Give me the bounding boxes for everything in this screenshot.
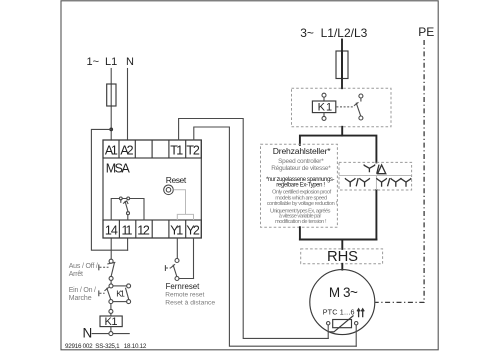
wire to coil connection circle (110, 304, 112, 310)
svg-text:3~: 3~ (300, 26, 314, 40)
symbol Y/YY (377, 178, 412, 187)
wire RHS to motor (341, 264, 343, 270)
relay coil K1 (100, 316, 122, 327)
svg-text:M 3~: M 3~ (329, 285, 358, 300)
border frame (61, 1, 438, 350)
svg-text:PTC 1...6: PTC 1...6 (323, 307, 355, 316)
wire branch from L1 junction to contact bus (91, 129, 127, 250)
svg-text:regelbare Ex-Typen !: regelbare Ex-Typen ! (276, 182, 325, 188)
wire N down to A2 (127, 69, 129, 141)
fuse F1 (107, 84, 116, 106)
bus to RHS (300, 239, 377, 241)
svg-text:1~: 1~ (87, 56, 100, 68)
svg-text:Y1: Y1 (170, 223, 183, 237)
thin link reset to Y1 Y2 (173, 190, 185, 215)
svg-text:MSA: MSA (106, 161, 131, 175)
actuator dashed link (336, 106, 354, 108)
node N rail (92, 333, 129, 335)
svg-text:L1/L2/L3: L1/L2/L3 (321, 26, 368, 40)
MSA relay outline U1 (103, 140, 201, 238)
wire below winding box (375, 190, 377, 240)
coil terminal bottom (323, 113, 325, 117)
svg-text:12: 12 (137, 223, 150, 237)
svg-text:T1: T1 (170, 143, 183, 157)
symbol Y/D (364, 165, 386, 174)
reset button S1 (164, 185, 174, 195)
svg-text:K1: K1 (318, 102, 333, 114)
wire Aus to Ein junction (110, 280, 112, 284)
wire L1 down to fuse (110, 69, 112, 141)
svg-text:PE: PE (418, 25, 434, 39)
wire stub right PTC terminal (355, 325, 357, 346)
svg-text:Remote reset: Remote reset (165, 292, 204, 299)
Ein pushbutton NO with K1 contact parallel (99, 284, 131, 304)
svg-text:Ein / On /: Ein / On / (69, 287, 96, 294)
Fernreset pushbutton (165, 238, 193, 281)
Aus pushbutton NC (99, 259, 115, 280)
wire from terminal 14 down to Aus button (110, 238, 112, 259)
wire from controller to bus (299, 227, 301, 239)
contactor K1 dashed enclosure (292, 88, 392, 127)
symbol Y/Y (345, 178, 370, 187)
terminal row top (103, 140, 201, 158)
RHS dashed box (301, 249, 383, 264)
svg-text:RHS: RHS (327, 249, 358, 265)
PE dash-dot line (375, 40, 424, 302)
svg-text:Drehzahlsteller*: Drehzahlsteller* (273, 146, 332, 156)
wire T1 loop to PTC left (179, 119, 329, 339)
svg-text:L1: L1 (105, 56, 117, 68)
node junction on L1 (109, 127, 113, 131)
wire stub left PTC terminal (327, 325, 329, 339)
svg-text:Reset: Reset (166, 175, 187, 185)
terminal row bottom (103, 220, 201, 238)
coil terminal top (322, 93, 326, 97)
fuse F2 (336, 51, 348, 79)
svg-text:N: N (83, 326, 93, 341)
svg-text:A2: A2 (120, 143, 133, 157)
arrows up (357, 309, 364, 317)
svg-text:T2: T2 (186, 143, 199, 157)
svg-text:K1: K1 (116, 288, 125, 298)
svg-text:92916 002 SS-325,1 18.10.12: 92916 002 SS-325,1 18.10.12 (65, 343, 147, 350)
speed controller dashed box (261, 144, 338, 227)
wire contactor to split (341, 127, 343, 136)
svg-text:Aus / Off /: Aus / Off / (69, 263, 98, 270)
svg-text:14: 14 (105, 223, 118, 237)
svg-text:Fernreset: Fernreset (166, 282, 201, 291)
svg-text:Reset à distance: Reset à distance (165, 299, 215, 306)
svg-text:Speed controller*: Speed controller* (278, 158, 324, 165)
wire coil to N (110, 327, 112, 332)
svg-text:modification de tension !: modification de tension ! (275, 219, 327, 225)
wire T2 loop to PTC right (194, 127, 356, 346)
contactor main contact (354, 94, 363, 120)
svg-text:Arrêt: Arrêt (69, 271, 83, 278)
svg-text:11: 11 (122, 223, 133, 237)
wire from terminal 11 down to bus (127, 238, 129, 250)
svg-text:A1: A1 (105, 143, 118, 157)
motor M1 circle (310, 270, 375, 335)
wire 3ph down to fuse (341, 40, 343, 89)
PTC thermistor RT1 (327, 316, 358, 332)
svg-text:Régulateur de vitesse*: Régulateur de vitesse* (271, 165, 331, 172)
winding configuration box (339, 162, 412, 190)
changeover contact 11-12-14 (111, 197, 144, 220)
svg-text:N: N (126, 56, 134, 68)
svg-text:Y2: Y2 (186, 223, 199, 237)
svg-text:Marche: Marche (69, 295, 92, 302)
contactor coil K1 (312, 101, 335, 113)
svg-text:controllable by voltage reduct: controllable by voltage reduction ! (267, 201, 338, 207)
wire split bus (300, 136, 377, 163)
